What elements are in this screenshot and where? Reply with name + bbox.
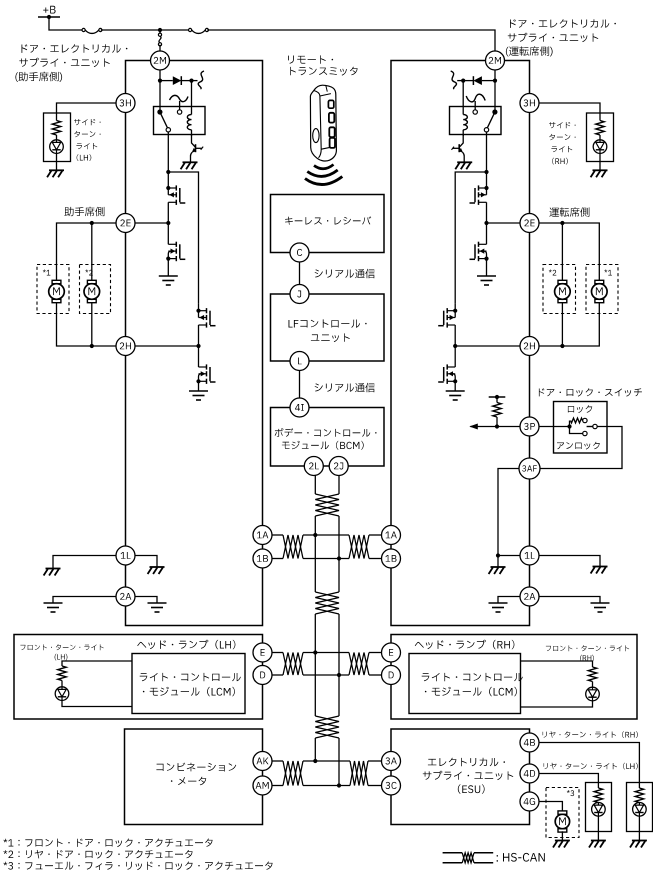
mosfet T2 (left upper N) [175,242,177,247]
connector 1B (left) [253,549,272,568]
label door electrical supply unit (driver) [510,19,616,28]
wire rear lamp LH to ground [597,816,599,840]
label side turn light RH [549,122,576,128]
chassis ground below rear RH [630,841,647,848]
fuse connector on rail (left) [82,28,85,31]
chassis ground 1L outside-right [591,567,608,574]
inline connector to left 2M [159,30,161,34]
wire resistor to LED (front RH) [592,682,594,688]
wire 3H to side turn light (right) [539,103,600,113]
wire 2E to chain (right) [487,222,521,224]
wire stub to squiggle [192,80,198,82]
junction motor M2 at 2H line [90,344,94,348]
wire motor M5 to ground [561,831,563,840]
wire T2 to ground [167,259,169,276]
wire LED to LCM (front RH) [521,701,593,707]
cut-wire squiggle (left relay top) [198,71,204,89]
label ESU [428,758,505,767]
wire resistor to LED (RH) [599,135,601,140]
unlock branch wire [570,427,583,434]
wire diode junction down to coil [191,81,193,115]
switch arm stub [587,426,593,428]
LCM box RH [409,654,521,714]
wire 3A row right [368,760,382,762]
junction 2E motor branch (right) [560,221,564,225]
connector 2L [304,457,323,476]
LF control unit box [271,294,385,361]
earth ground 2A outside-right [591,602,610,604]
mosfet T3 (left lower P) [206,308,208,313]
LED (front turn RH) [586,687,600,701]
connector E (left) [253,643,272,662]
connector 3H (right) [520,94,539,113]
junction at T2 source [166,257,170,261]
label serial comm 1 [315,269,375,279]
dashed actuator box *3 [546,788,579,838]
label unlock [557,442,600,450]
wire 1B row [272,558,283,560]
switch common circle [593,424,597,428]
wire motor M3 to 2H line [539,302,599,346]
wire to motor M4 [561,223,563,281]
junction at 2H line (right) [453,344,457,348]
resistor (rear turn RH) [635,788,643,803]
wire AK row [272,760,283,762]
junction AK left-bus [313,759,317,763]
LED lamp (side turn light RH) [593,140,607,154]
footnote *3 [3,862,272,871]
wire T4 to ground [198,381,200,391]
body control module box [271,408,385,467]
resistor R1 (3P pull-up) [496,397,498,403]
earth ground 2A inside-right [489,602,508,604]
connector 1A (left) [253,526,272,545]
wire 1L right to ground (right) [539,556,600,567]
wire into resistor (RH) [599,113,601,121]
junction below right relay switch [484,170,488,174]
wire C to J [299,253,301,295]
wire motor M4 down [561,302,563,346]
junction motor M4 at 2H line [560,344,564,348]
transistor Q2 (right relay driver) [459,135,463,148]
wire 1L left to ground (right box) [498,555,520,557]
connector 2E (right) [520,214,539,233]
resistor (side turn light RH) [596,121,604,136]
label serial comm 2 [315,383,375,393]
wire 2E node down to T2 [167,223,169,244]
connector C [290,243,309,262]
wire E row [272,652,283,654]
wire to motor M2 [91,223,93,281]
wire AM row [272,785,283,787]
twisted pair vertical 3 [315,716,339,738]
junction at T3 drain [196,309,200,313]
motor M5 (fuel filler lid lock actuator) [558,811,567,814]
junction left of diode D2 [461,79,465,83]
label rear turn light RH [543,731,638,738]
junction right of diode D1 [189,79,193,83]
chassis ground below Q2 [455,162,472,169]
combination meter box [125,729,263,825]
connector 3A [382,752,401,771]
connector AK [253,752,272,771]
earth ground below T6 [477,275,496,277]
connector L [290,352,309,371]
earth ground below T4 [189,390,208,392]
mosfet T6 (right upper N) [478,242,480,247]
lock contact circle [583,418,587,422]
wire 2E to chain (left) [135,222,168,224]
wire 2H to chain (left) [135,345,199,347]
connector D (right) [382,666,401,685]
wire resistor to LED [56,135,58,140]
junction AM right-bus [337,783,341,787]
connector 2J [329,457,348,476]
twisted pair E/D right [349,653,369,676]
remote transmitter key fob drawing [310,85,336,161]
junction at T4 source [196,379,200,383]
door lock switch resistor branch [569,421,571,427]
label head lamp LH [137,640,235,649]
chassis ground 1L inside-left [148,567,165,574]
wire 2M left down [159,70,161,112]
wire 4G to fuel lid motor [539,802,562,811]
wire resistor to LED (front LH) [61,681,63,687]
connector 2A (right) [520,587,539,606]
resistor (front turn RH) [588,667,596,682]
resistor (front turn LH) [58,666,66,681]
wire motor M1 to 2H line [57,302,117,346]
label LCM RH [422,673,523,681]
relay K2 box (right) [450,107,502,135]
wire LED to ground (RH) [599,153,601,170]
dashed actuator box *1 (left) [37,265,69,314]
relay K2 switch pivot [492,109,497,114]
wire 3C row right [368,785,382,787]
label front turn light LH [20,644,103,650]
mosfet T5 (right upper P) [478,185,480,190]
relay K1 box (left) [154,107,206,135]
wire D row [272,674,283,676]
wire 4B to rear lamp RH [539,743,639,789]
wire 1B row right [369,558,382,560]
bus wire right seg2 [338,614,340,716]
resistor (side turn light LH) [52,121,60,136]
relay K1 switch arm [160,112,167,128]
relay K1 coil [187,115,191,130]
rear lamp LH box [586,783,612,832]
mosfet T4 (left lower N) [206,364,208,369]
wire 4D to rear lamp LH [539,774,598,789]
footnote *1 [3,839,212,848]
wire T8 to ground [454,381,456,391]
connector 2H (left) [116,337,135,356]
connector 3C [382,776,401,795]
motor M4 (rear door lock actuator R) [558,280,567,283]
fuse connector on rail (right) [189,28,192,31]
wire coil to transistor [191,130,193,136]
connector 1B (right) [382,549,401,568]
chassis ground below Q1 [181,162,198,169]
wire 2A right to ground (right) [539,597,600,604]
junction at T7 drain [453,309,457,313]
cut-wire squiggle (right relay top) [451,71,457,89]
relay K2 switch output circle [484,128,488,132]
wire switch to junction [167,132,169,172]
chassis ground 1L outside-left [44,569,61,576]
bus wire left seg3 [314,738,316,761]
wire 2H node down to T4 [198,346,200,367]
wire 2A left to ground [53,597,116,604]
junction below right 2M [493,79,497,83]
label head lamp RH [415,640,515,649]
connector 1L (left) [116,546,135,565]
wire LCM to resistor LH [62,661,132,666]
door lock switch box [554,402,608,454]
relay K2 switch arm [488,112,495,128]
bus wire left seg1 [314,516,316,592]
twisted pair E/D left [283,653,303,676]
junction below left relay switch [166,170,170,174]
connector 2M (right) [486,51,505,70]
wire 3H to side turn light [57,103,117,113]
wire to mosfet T5 [486,172,488,195]
dashed actuator box *2 (right) [543,265,576,314]
footnote *2 [3,850,192,859]
junction at 2E line (right) [484,221,488,225]
wire LED to LCM (front LH) [62,700,132,706]
wire 2E right to motors [539,223,599,281]
LCM box LH [132,654,245,714]
label driver side [549,207,589,217]
head lamp RH box [391,635,637,720]
twisted pair 1A/1B right [349,535,369,559]
wire T1 source to 2E node [167,202,169,223]
wire 2L down [314,476,316,495]
connector 4I [290,398,309,417]
label lock [568,405,592,413]
wire rail to right 2M [207,30,495,51]
junction at T8 source [453,379,457,383]
node junction above 2M left [158,28,162,32]
unlock contact circle [583,431,587,435]
rear lamp RH box [627,783,653,832]
earth ground 2A outside-left [44,602,63,604]
wire L to 4I [299,361,301,408]
bus wire right seg1 [338,516,340,592]
twisted pair 3A/3C right [350,761,368,786]
chassis ground 1L inside-right [489,567,506,574]
wire 2M right down [494,70,496,112]
label rear turn light LH [544,763,638,770]
wire junction to right chain [168,172,198,304]
wire 1A row right [369,534,382,536]
chassis ground below M5 [553,841,570,848]
wire LED to ground [56,153,58,170]
connector E (right) [382,643,401,662]
wire 3AF to 1L line [498,469,519,556]
wire motor M2 down [91,302,93,346]
connector 1A (right) [382,526,401,545]
wire diode junction down to coil (right) [462,81,464,115]
wire switch to 3AF [540,427,622,469]
connector 2E (left) [116,214,135,233]
connector J [290,285,309,304]
cut-wire tilde (right relay contact) [466,94,485,102]
wire 2A left to ground (right box) [498,597,520,604]
wire 2E left to motors [57,223,117,281]
wire T5 source to 2E node [486,202,488,223]
junction 3AF line at 1L [496,553,500,557]
bus wire right seg3 [338,738,340,786]
mosfet T1 (left upper P) [175,185,177,190]
label front turn light RH [546,645,629,651]
mosfet T8 (right lower N) [446,364,448,369]
label side turn light LH [74,119,101,125]
connector 4G [520,792,539,811]
wire to mosfet T1 [167,172,169,195]
earth ground below T2 [159,275,178,277]
wire 1L right to ground [135,556,157,568]
label passenger side [64,207,104,217]
junction 1A left-bus [313,533,317,537]
wire 2H node down to T8 [454,346,456,367]
junction at 2E line (left) [166,221,170,225]
wire rail segment [101,29,190,31]
connector 3AF [519,458,540,479]
chassis ground below rear LH [589,841,606,848]
wire D row right [369,674,382,676]
LED (rear turn LH) [592,803,606,817]
wire 1A row [272,534,283,536]
transistor Q1 (left relay driver) [192,135,196,148]
label door lock switch [539,388,642,396]
head lamp LH box [14,635,263,720]
wire coil to transistor (right) [462,130,464,136]
wire 3P into switch [539,426,570,428]
junction at T5 drain [484,186,488,190]
motor M1 (front door lock actuator) [52,280,61,283]
connector 4D [520,764,539,783]
wire 2A right to ground [135,597,157,604]
pull-up supply bar [489,396,506,398]
junction E left-bus [313,650,317,654]
wire switch to junction (right) [486,132,488,172]
wire T7 source to 2H node [454,325,456,346]
junction at 2H line (left) [196,344,200,348]
label body control module [275,428,377,437]
LED (front turn LH) [55,687,69,701]
wire stub to squiggle (right) [457,80,463,82]
dashed actuator box *2 (left) [80,265,111,314]
label remote transmitter [288,55,333,63]
connector 3P [520,417,539,436]
twisted pair vertical 1 [315,494,339,516]
junction D right-bus [337,673,341,677]
connector 1L (right) [520,546,539,565]
mosfet T7 (right lower P) [446,308,448,313]
relay K1 switch pivot [157,109,162,114]
wire T6 to ground [486,259,488,276]
motor M3 (front door lock actuator R) [595,280,604,283]
twisted pair AK/AM left [283,761,303,786]
LED lamp (side turn light LH) [50,140,64,154]
wire LCM to resistor RH [521,661,593,667]
wire into resistor [56,113,58,121]
label keyless receiver [285,216,371,224]
HS-CAN legend symbol [443,852,463,854]
connector 2H (right) [520,337,539,356]
wire T3 source to 2H node [198,325,200,346]
chassis ground below side light LH [47,170,64,177]
dashed actuator box *1 (right) [586,265,618,314]
junction below left 2M [158,79,162,83]
LED (rear turn RH) [633,803,647,817]
relay K2 contact NC circle [473,110,477,114]
keyless receiver box [271,195,385,253]
wire E row right [369,652,382,654]
connector 3H (left) [116,94,135,113]
wire 2J down [338,476,340,495]
earth ground 2A inside-left [148,602,167,604]
junction at T1 drain [166,186,170,190]
junction 1B right-bus [337,556,341,560]
label LCM LH [140,673,241,681]
earth ground below T8 [446,390,465,392]
connector D (left) [253,666,272,685]
junction door lock switch common [567,424,571,428]
label HS-CAN [497,853,545,862]
connector 4B [520,733,539,752]
wire 2H to chain (right) [455,345,520,347]
diode D1 (left) [160,80,173,82]
cut-wire tilde (left relay contact) [170,95,189,101]
relay K2 coil [463,115,467,130]
connector 2M (left) [151,51,170,70]
side turn light RH box [587,113,614,162]
wire 3P line with arrow [470,426,520,428]
wire 2E node down to T6 [486,223,488,244]
junction 2E motor branch [90,221,94,225]
connector 2A (left) [116,587,135,606]
label LF control unit [289,319,367,327]
relay K1 contact NC circle [177,110,181,114]
resistor (rear turn LH) [594,788,602,803]
wire rear lamp RH to ground [638,816,640,840]
door electrical supply unit box (passenger side) [126,61,263,626]
junction on 3P line [495,424,499,428]
twisted pair vertical 2 [315,592,339,614]
wire junction to left chain (right box) [455,172,486,304]
junction at T6 source [484,257,488,261]
connector AM [253,776,272,795]
twisted pair 1A/1B left [283,535,303,559]
bus wire left seg2 [314,614,316,716]
motor M2 (rear door lock actuator) [87,280,96,283]
electrical supply unit box [391,729,530,825]
radio wave arcs [314,165,334,169]
diode D2 (right) [482,80,495,82]
relay K1 switch output circle [166,128,170,132]
label combination meter [156,763,236,772]
door electrical supply unit box (driver side) [391,61,530,626]
side turn light LH box [44,113,71,162]
wire 1L left to ground [53,556,116,569]
+B supply symbol and label [43,6,55,14]
label door electrical supply unit (passenger) [22,44,128,53]
chassis ground below side light RH [591,170,608,177]
